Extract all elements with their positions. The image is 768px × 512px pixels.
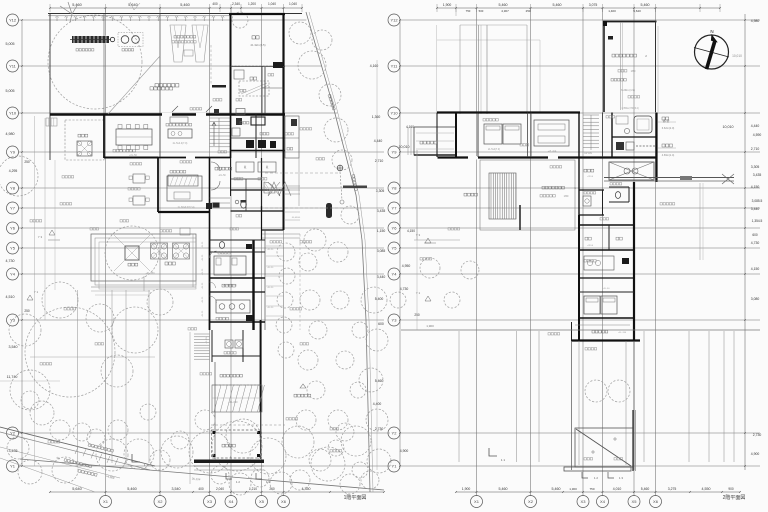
2f master bedroom walls bbox=[455, 113, 457, 158]
svg-text:5,005: 5,005 bbox=[6, 42, 15, 46]
svg-text:21.32m(6.5): 21.32m(6.5) bbox=[250, 43, 265, 47]
svg-text:+FL-50: +FL-50 bbox=[202, 310, 204, 317]
svg-text:4,440: 4,440 bbox=[751, 124, 760, 128]
void shaft thin verticals above garage bbox=[459, 25, 461, 114]
kitchen counter bbox=[168, 129, 192, 138]
ref level marks left bbox=[49, 230, 55, 235]
svg-text:2,340: 2,340 bbox=[232, 2, 240, 6]
svg-text:4,590: 4,590 bbox=[753, 133, 762, 137]
porch east canopy bbox=[261, 206, 263, 240]
laundry fixtures bbox=[246, 140, 254, 148]
2f bed symbols bbox=[484, 124, 502, 144]
2f washroom2 bbox=[579, 189, 604, 191]
dark planter blob bbox=[326, 203, 332, 218]
north block floor outline verticals bbox=[103, 14, 105, 114]
spine lower rooms bbox=[211, 330, 213, 362]
svg-text:750: 750 bbox=[466, 9, 471, 13]
svg-text:X3: X3 bbox=[207, 499, 213, 504]
svg-text:600: 600 bbox=[378, 322, 384, 326]
svg-text:250: 250 bbox=[526, 9, 531, 13]
svg-text:3,440: 3,440 bbox=[751, 207, 760, 211]
svg-text:+FL-50: +FL-50 bbox=[603, 288, 611, 290]
svg-text:1,040: 1,040 bbox=[268, 2, 276, 6]
svg-text:Y 3: Y 3 bbox=[38, 235, 43, 239]
svg-text:Y9: Y9 bbox=[10, 150, 16, 155]
left plan misc labels bbox=[155, 84, 179, 87]
2f stairs bbox=[583, 114, 599, 116]
extra tiny annotation texts right plan bbox=[550, 166, 562, 168]
left plan dimension chain vertical bbox=[21, 20, 23, 466]
stairs lower bbox=[194, 333, 210, 335]
site entrance label bbox=[294, 394, 311, 397]
svg-text:3,305: 3,305 bbox=[751, 165, 760, 169]
road extra line bbox=[0, 458, 95, 492]
svg-text:1,360: 1,360 bbox=[372, 115, 381, 119]
svg-text:+FL-650: +FL-650 bbox=[229, 401, 239, 404]
svg-text:5,460: 5,460 bbox=[499, 3, 508, 7]
entrance hall walls bbox=[209, 158, 211, 230]
garage west wall bbox=[230, 13, 232, 114]
2f storage rooms bbox=[579, 224, 634, 226]
svg-text:Y6: Y6 bbox=[392, 226, 398, 231]
svg-text:X5: X5 bbox=[259, 499, 265, 504]
svg-text:浴 室: 浴 室 bbox=[663, 118, 670, 123]
svg-text:2,730: 2,730 bbox=[375, 427, 384, 431]
svg-text:400: 400 bbox=[198, 487, 204, 491]
svg-text:Y2: Y2 bbox=[392, 431, 398, 436]
svg-text:1,040: 1,040 bbox=[289, 2, 297, 6]
svg-text:5,460: 5,460 bbox=[499, 487, 508, 491]
svg-text:1,210: 1,210 bbox=[249, 487, 257, 491]
south end wall bar bbox=[194, 460, 264, 464]
roof terrace 2 block outline bbox=[603, 22, 605, 113]
svg-text:4,730: 4,730 bbox=[751, 241, 760, 245]
right plan trees bbox=[585, 380, 607, 402]
road annotation text bbox=[88, 443, 114, 452]
svg-text:Y7: Y7 bbox=[392, 206, 398, 211]
2f hall label bbox=[584, 169, 594, 172]
garage east wall bbox=[282, 13, 284, 114]
2f spine walls bbox=[578, 215, 580, 341]
svg-text:+2FL0: +2FL0 bbox=[587, 245, 594, 247]
pergola stripes bbox=[489, 173, 516, 219]
utility boxes at south wall bbox=[236, 109, 245, 115]
2f laundry room bbox=[616, 142, 624, 150]
svg-text:900: 900 bbox=[728, 487, 734, 491]
svg-text:4,295: 4,295 bbox=[9, 169, 18, 173]
garden paving verticals left plan bbox=[77, 290, 79, 463]
svg-text:+FL-650: +FL-650 bbox=[206, 335, 208, 343]
2f drying bar east bbox=[604, 177, 734, 179]
svg-text:+FL-50: +FL-50 bbox=[202, 268, 204, 275]
right plan right dimension line bbox=[744, 14, 746, 470]
2f lower roof verticals bbox=[571, 341, 573, 470]
azumaya pavilion bbox=[212, 430, 262, 458]
fence line along north boundary bbox=[48, 13, 302, 15]
svg-text:3,085: 3,085 bbox=[377, 249, 386, 253]
roof terrace 2 drying fixture bbox=[608, 36, 613, 40]
bath leader line 2 bbox=[658, 147, 676, 149]
svg-text:40,450G: 40,450G bbox=[292, 217, 301, 219]
svg-text:3,075: 3,075 bbox=[589, 3, 598, 7]
svg-text:Y 1: Y 1 bbox=[416, 291, 421, 295]
svg-text:1 3: 1 3 bbox=[619, 476, 623, 480]
svg-text:収: 収 bbox=[266, 165, 269, 169]
svg-text:+2L.4x4: +2L.4x4 bbox=[548, 150, 557, 153]
2f section marks bbox=[489, 448, 497, 456]
svg-text:1,900: 1,900 bbox=[426, 324, 434, 328]
utility pole bbox=[337, 165, 343, 171]
svg-text:4,980: 4,980 bbox=[751, 19, 760, 23]
1f outline ghost under 2f plan bbox=[436, 25, 438, 112]
backyard diagonal bbox=[108, 56, 160, 114]
svg-text:X6: X6 bbox=[281, 499, 287, 504]
2f bathroom bbox=[611, 113, 613, 158]
dining room west wall bbox=[103, 114, 105, 158]
svg-text:+FL-50: +FL-50 bbox=[218, 175, 226, 177]
svg-text:Y3: Y3 bbox=[392, 318, 398, 323]
dining table and chairs bbox=[116, 129, 152, 145]
2f inner wall x478 bbox=[477, 113, 479, 158]
right plan top dimension line bbox=[437, 7, 720, 9]
bedroom beds bbox=[214, 256, 246, 275]
svg-text:4,510: 4,510 bbox=[6, 295, 15, 299]
svg-text:+FL-50: +FL-50 bbox=[267, 287, 274, 289]
solar water heater hatched unit bbox=[72, 36, 109, 43]
kitchen south wall bbox=[158, 157, 231, 159]
east service rooms bbox=[283, 114, 285, 230]
svg-text:400: 400 bbox=[212, 2, 218, 6]
spine room partitions bbox=[210, 239, 266, 241]
parking space markings bbox=[170, 25, 186, 62]
garage room label bbox=[252, 36, 259, 39]
top dim leader stubs right plan bbox=[455, 8, 457, 16]
east wing outer line bbox=[298, 116, 300, 206]
2f kids room bbox=[579, 277, 634, 279]
canopy dashed vertical east of spine bbox=[299, 234, 301, 330]
svg-text:+FL-50: +FL-50 bbox=[202, 296, 204, 303]
svg-text:+2FL0: +2FL0 bbox=[587, 176, 594, 178]
svg-text:5,640: 5,640 bbox=[128, 3, 138, 7]
svg-text:1 1: 1 1 bbox=[144, 463, 149, 467]
svg-text:Y7: Y7 bbox=[10, 206, 16, 211]
svg-text:1,200: 1,200 bbox=[248, 2, 256, 6]
living sofa set bbox=[167, 176, 202, 201]
roof terrace 1 west wall segment bbox=[519, 205, 521, 230]
svg-text:5,460: 5,460 bbox=[553, 3, 562, 7]
svg-text:5,640: 5,640 bbox=[72, 487, 82, 491]
svg-text:+FL-550: +FL-550 bbox=[146, 272, 156, 275]
svg-text:Y10: Y10 bbox=[9, 111, 17, 116]
north block west wall bbox=[49, 14, 51, 160]
svg-text:4,160: 4,160 bbox=[406, 125, 414, 129]
deck area bbox=[65, 120, 104, 160]
svg-text:600: 600 bbox=[752, 233, 758, 237]
right plan dimension chain vertical bbox=[399, 20, 401, 466]
2f void skylight cross bbox=[609, 162, 654, 180]
svg-text:2L.60x6.07(7.4): 2L.60x6.07(7.4) bbox=[178, 206, 195, 209]
extra tiny annotation texts left plan bbox=[60, 203, 72, 205]
svg-text:2,710: 2,710 bbox=[375, 159, 384, 163]
svg-text:250: 250 bbox=[24, 160, 30, 164]
terrace planter cherry tree bbox=[125, 246, 139, 260]
svg-text:3,435: 3,435 bbox=[377, 209, 386, 213]
deck steps bbox=[46, 118, 57, 126]
2f lower roof rect with diagonal bbox=[575, 428, 633, 467]
svg-text:5,460: 5,460 bbox=[127, 487, 137, 491]
svg-text:X1: X1 bbox=[103, 499, 109, 504]
svg-text:Y1: Y1 bbox=[392, 464, 398, 469]
svg-text:5,640: 5,640 bbox=[633, 9, 641, 13]
sub dimension chains left bbox=[34, 116, 36, 466]
svg-text:5,460: 5,460 bbox=[641, 3, 650, 7]
roof terrace 2 labels bbox=[612, 54, 637, 57]
svg-text:Y5: Y5 bbox=[10, 246, 16, 251]
left plan top dimension line bbox=[50, 7, 302, 9]
extra trees last bbox=[50, 420, 70, 440]
terrace tables bbox=[151, 243, 168, 259]
2f balcony south bbox=[571, 322, 573, 341]
washroom basins bbox=[216, 300, 250, 313]
2f balcony rail west bbox=[416, 150, 418, 240]
svg-text:+FL-50: +FL-50 bbox=[267, 307, 274, 309]
more bottom garden trees bbox=[211, 466, 229, 484]
terrace nested outlines bbox=[91, 234, 196, 281]
roof terrace 2 inner double vertical bbox=[620, 22, 622, 110]
dashed setback lines bbox=[265, 172, 340, 174]
svg-text:10,010: 10,010 bbox=[732, 54, 742, 58]
svg-text:3,540: 3,540 bbox=[172, 487, 181, 491]
svg-text:4,900: 4,900 bbox=[751, 452, 760, 456]
svg-text:1階平面図: 1階平面図 bbox=[344, 494, 367, 501]
left plan X axis circles bbox=[100, 496, 112, 508]
svg-text:Y11: Y11 bbox=[9, 64, 17, 69]
2f roof eave bar bbox=[564, 467, 631, 471]
right plan bottom dimension line bbox=[456, 491, 740, 493]
north block south wall (backyard) bbox=[50, 113, 285, 115]
svg-text:4,730: 4,730 bbox=[6, 259, 15, 263]
approach step lines east of spine bbox=[266, 245, 284, 247]
right plan ref arrows bbox=[425, 238, 431, 243]
svg-text:4,550: 4,550 bbox=[702, 487, 711, 491]
svg-text:5,400: 5,400 bbox=[375, 297, 384, 301]
2f main band balcony bbox=[414, 127, 456, 155]
left plan section marks bbox=[132, 454, 140, 462]
backyard door symbols on south wall bbox=[172, 106, 178, 112]
svg-text:Y10: Y10 bbox=[390, 111, 398, 116]
svg-text:1,354.5: 1,354.5 bbox=[752, 219, 763, 223]
svg-text:3,440: 3,440 bbox=[377, 275, 386, 279]
porch steps to east bbox=[284, 185, 300, 187]
entrance step lines bbox=[210, 197, 231, 199]
svg-text:Y8: Y8 bbox=[10, 186, 16, 191]
road boundary lines bottom left bbox=[0, 427, 155, 466]
left plan bottom dimension line bbox=[50, 491, 384, 493]
trees and planting circles bbox=[48, 15, 142, 109]
north arrow compass bbox=[694, 29, 729, 70]
svg-text:4,150: 4,150 bbox=[751, 185, 760, 189]
wc fixture top spine bbox=[219, 242, 224, 249]
living room walls bbox=[158, 211, 210, 213]
right plan lower long verticals bbox=[458, 331, 460, 462]
svg-text:Y6: Y6 bbox=[10, 226, 16, 231]
svg-text:1/50: 1/50 bbox=[631, 70, 636, 73]
svg-text:4,980: 4,980 bbox=[6, 132, 15, 136]
dining room south wall bbox=[104, 157, 158, 159]
svg-text:Y1: Y1 bbox=[10, 464, 16, 469]
service yard hatch ramp bbox=[212, 385, 262, 412]
svg-text:1,900: 1,900 bbox=[443, 3, 452, 7]
balcony hatch lines 2f bbox=[416, 132, 454, 134]
svg-text:+FL-50: +FL-50 bbox=[202, 282, 204, 289]
right plan Y axis circles bbox=[388, 14, 400, 26]
svg-text:Y5: Y5 bbox=[392, 246, 398, 251]
svg-text:4,730: 4,730 bbox=[400, 287, 409, 291]
2f sofa set bbox=[534, 120, 569, 146]
bedroom spine walls west bbox=[209, 230, 211, 330]
svg-text:N: N bbox=[710, 29, 713, 34]
svg-text:4.69m(1.4): 4.69m(1.4) bbox=[662, 153, 675, 157]
stair hall top bbox=[210, 117, 231, 119]
tree branch sketch top left bbox=[60, 2, 78, 22]
svg-text:5,460: 5,460 bbox=[180, 3, 190, 7]
svg-text:2L.5x4(7.0): 2L.5x4(7.0) bbox=[488, 148, 500, 151]
svg-text:X4: X4 bbox=[600, 499, 606, 504]
svg-text:4,440: 4,440 bbox=[374, 139, 383, 143]
svg-text:5,460: 5,460 bbox=[641, 487, 650, 491]
svg-text:4,010: 4,010 bbox=[613, 487, 622, 491]
2f toilet2 bbox=[609, 186, 629, 188]
2f extra horizontal line y330 bbox=[401, 329, 760, 331]
svg-text:3,435: 3,435 bbox=[753, 173, 762, 177]
svg-text:X2: X2 bbox=[158, 499, 164, 504]
svg-text:+FL-130: +FL-130 bbox=[618, 332, 627, 334]
svg-text:1,400: 1,400 bbox=[608, 9, 616, 13]
laundry pole bar backyard bbox=[212, 85, 226, 88]
additional garden trees bbox=[42, 282, 78, 318]
svg-text:3,085.5: 3,085.5 bbox=[752, 199, 763, 203]
svg-text:1,350x2,700(6.2): 1,350x2,700(6.2) bbox=[621, 108, 639, 110]
svg-text:5,460: 5,460 bbox=[375, 379, 384, 383]
svg-text:750: 750 bbox=[589, 487, 594, 491]
svg-text:3,540: 3,540 bbox=[9, 345, 18, 349]
2f corridor walls bbox=[578, 113, 580, 226]
storage room walls bbox=[231, 66, 286, 68]
svg-text:Y9: Y9 bbox=[392, 150, 398, 155]
wc and closet rooms east of hall bbox=[231, 189, 284, 191]
right plan garden trees lower bbox=[461, 261, 479, 279]
svg-text:+FL-50: +FL-50 bbox=[202, 254, 204, 261]
site boundary diagonal road line bbox=[306, 12, 370, 492]
svg-text:X3: X3 bbox=[581, 499, 587, 504]
svg-text:4,150: 4,150 bbox=[751, 267, 760, 271]
svg-text:4,307: 4,307 bbox=[501, 9, 509, 13]
svg-text:2,730: 2,730 bbox=[753, 433, 762, 437]
svg-text:X4: X4 bbox=[229, 499, 235, 504]
spine door arcs bbox=[210, 251, 217, 258]
svg-text:6.62m(2.0): 6.62m(2.0) bbox=[662, 126, 675, 130]
svg-text:Y11: Y11 bbox=[391, 64, 399, 69]
svg-text:1 1: 1 1 bbox=[501, 458, 506, 462]
right plan vertical grid lines bbox=[476, 8, 478, 496]
right plan X axis circles bbox=[471, 496, 483, 508]
svg-text:Y8: Y8 bbox=[392, 186, 398, 191]
gate bar near pole bbox=[343, 186, 367, 189]
svg-text:1 2: 1 2 bbox=[236, 480, 240, 484]
svg-text:2L.5x4.4(7.0): 2L.5x4.4(7.0) bbox=[173, 142, 188, 145]
tatami room chairs bbox=[133, 174, 145, 183]
svg-text:Y 3: Y 3 bbox=[416, 233, 421, 237]
utility rooms east of kitchen walls bbox=[230, 114, 232, 158]
svg-text:4,950: 4,950 bbox=[402, 264, 411, 268]
right side dim chain of left plan bbox=[376, 60, 378, 470]
bedroom spine walls east heavy bbox=[252, 240, 254, 330]
svg-text:Y4: Y4 bbox=[10, 272, 16, 277]
storage dashed future box bbox=[239, 81, 269, 96]
svg-text:1 2: 1 2 bbox=[594, 476, 598, 480]
dining kitchen outline bbox=[157, 158, 159, 213]
garage door dashed bbox=[231, 65, 283, 67]
svg-text:2階平面図: 2階平面図 bbox=[723, 494, 746, 501]
left plan horizontal grid lines Y1-Y12 bbox=[22, 19, 306, 21]
closet shelf boxes bbox=[236, 162, 254, 172]
svg-text:X1: X1 bbox=[474, 499, 480, 504]
svg-text:X6: X6 bbox=[653, 499, 659, 504]
svg-text:1,150: 1,150 bbox=[377, 229, 386, 233]
svg-text:500: 500 bbox=[479, 9, 484, 13]
svg-text:2,710: 2,710 bbox=[751, 147, 760, 151]
left plan Y axis circles bbox=[7, 14, 19, 26]
svg-text:+FL-50: +FL-50 bbox=[267, 267, 274, 269]
svg-text:Y4: Y4 bbox=[392, 272, 398, 277]
svg-text:3,080: 3,080 bbox=[751, 297, 760, 301]
svg-text:3,275: 3,275 bbox=[668, 487, 677, 491]
svg-text:4,900: 4,900 bbox=[400, 449, 409, 453]
garage north wall bbox=[229, 13, 285, 15]
svg-text:X2: X2 bbox=[528, 499, 534, 504]
svg-text:Y12: Y12 bbox=[390, 18, 398, 23]
svg-text:+FL-50: +FL-50 bbox=[267, 249, 274, 251]
svg-text:1,300: 1,300 bbox=[569, 487, 577, 491]
svg-text:Y12: Y12 bbox=[9, 18, 17, 23]
svg-text:+FL-50: +FL-50 bbox=[202, 241, 204, 248]
svg-text:2,040: 2,040 bbox=[216, 487, 224, 491]
dashed row below ramp bbox=[211, 424, 285, 426]
svg-text:X5: X5 bbox=[632, 499, 638, 504]
spine long verticals lower bbox=[214, 362, 216, 459]
2f roof terrace 1 bbox=[480, 160, 575, 230]
svg-text:1,900: 1,900 bbox=[462, 487, 471, 491]
svg-text:5,460: 5,460 bbox=[552, 487, 561, 491]
svg-text:+FL-50: +FL-50 bbox=[129, 154, 137, 157]
drying frame glyphs bbox=[268, 182, 280, 196]
entrance double door arcs bbox=[211, 162, 220, 171]
svg-text:10,010: 10,010 bbox=[723, 125, 734, 129]
left plan vertical grid lines X1-X6 bbox=[105, 8, 107, 496]
svg-text:1/50: 1/50 bbox=[564, 195, 569, 198]
svg-text:4,150: 4,150 bbox=[407, 229, 415, 233]
right plan horizontal grid lines bbox=[400, 19, 760, 21]
svg-text:5,005: 5,005 bbox=[6, 89, 15, 93]
dining kitchen divider bbox=[159, 116, 161, 157]
svg-text:収: 収 bbox=[244, 165, 247, 169]
svg-text:6.29m (1.9): 6.29m (1.9) bbox=[621, 88, 635, 92]
storage interior partitions bbox=[261, 66, 263, 114]
svg-text:UP DN: UP DN bbox=[584, 152, 592, 155]
purifier tank circles bbox=[118, 33, 143, 47]
svg-text:250: 250 bbox=[24, 309, 30, 313]
